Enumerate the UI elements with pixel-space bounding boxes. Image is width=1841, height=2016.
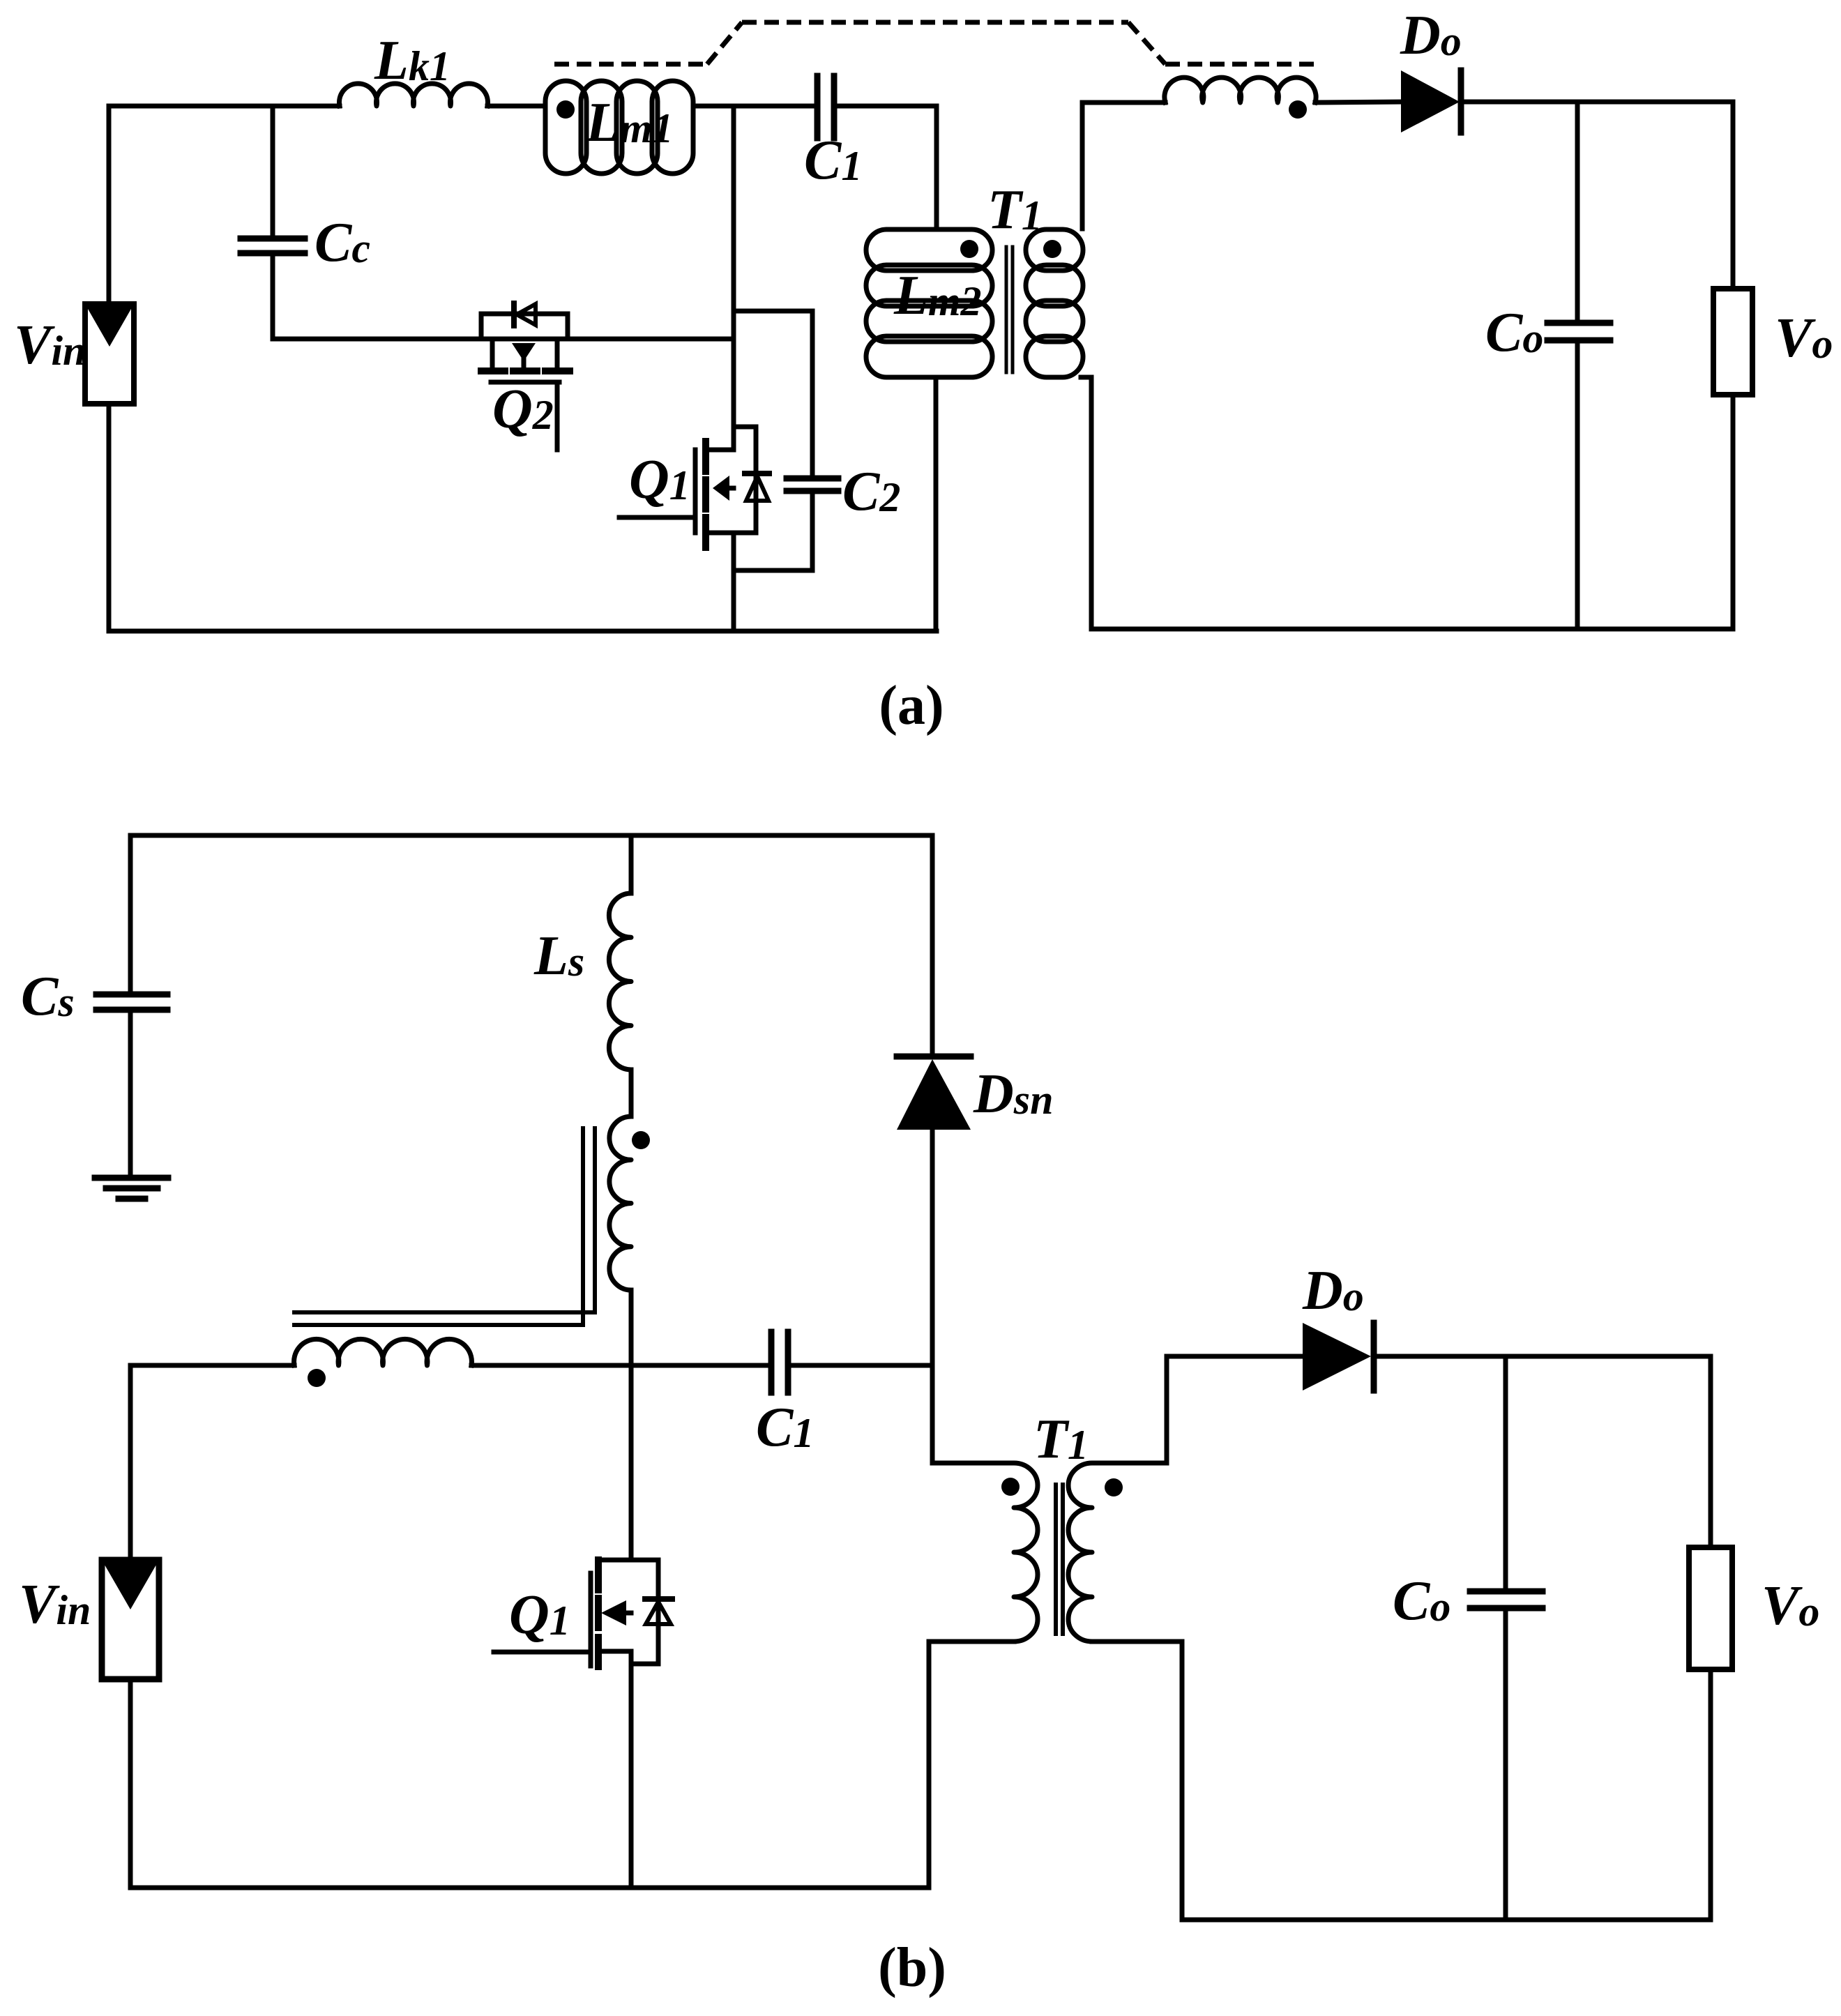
wire: Q2 source vertical bbox=[479, 314, 484, 339]
wire: Q1 gate lead (b) bbox=[494, 1650, 588, 1655]
Q2 channel stubs bbox=[490, 339, 495, 369]
wire: C2 branch top bbox=[734, 309, 812, 314]
Q1 gate bar bbox=[693, 450, 698, 533]
wire: to Vo (b) bbox=[1709, 1356, 1713, 1547]
wire: Vin to bottom rail bbox=[107, 404, 112, 631]
coupled winding (vertical, of input coupled inductor) bbox=[609, 1116, 631, 1290]
wire: Q2 drain vertical bbox=[566, 314, 570, 339]
capacitor Cs plates bbox=[96, 992, 167, 998]
Q1 source stub bbox=[709, 531, 734, 536]
diode Do (a) bbox=[1401, 70, 1460, 132]
wire: left rail to input coil bbox=[130, 1363, 294, 1368]
transformer T1 (b): secondary bbox=[1068, 1463, 1167, 1642]
Q1 body arrow (left) bbox=[601, 1600, 626, 1625]
wire: Q1 drain vertical from top rail bbox=[732, 106, 736, 450]
wire: T1 secondary bottom lead bbox=[1092, 1642, 1182, 1920]
wire: Co branch (b) bbox=[1503, 1356, 1508, 1589]
wire: Do to output corner bbox=[1461, 100, 1733, 105]
node: input coil phase dot bbox=[308, 1369, 326, 1387]
wire: T1 primary bottom lead bbox=[929, 1642, 1014, 1888]
capacitor C1 (b) plates bbox=[768, 1332, 775, 1393]
wire: left rail Vin (b) bbox=[128, 1365, 133, 1560]
coupled input inductor (horizontal winding) bbox=[294, 1339, 472, 1365]
node: T1 (b) primary dot bbox=[1001, 1478, 1020, 1496]
Q1 gate bar bbox=[589, 1573, 593, 1666]
wire: corner down to Lm2 bbox=[934, 106, 939, 229]
T1 (b) core bars bbox=[1054, 1485, 1058, 1634]
wire: Ls branch from top rail bbox=[629, 835, 634, 893]
svg-text:(b): (b) bbox=[878, 1937, 946, 1999]
capacitor Cc plates bbox=[241, 236, 305, 242]
Q1 body arrow (left) bbox=[713, 476, 729, 501]
wire: Vin left rail top bbox=[107, 106, 112, 304]
Q1 drain stub bbox=[602, 1558, 658, 1563]
wire: Cc bottom to Q2 source wire bbox=[271, 256, 275, 339]
inductor Ls bbox=[609, 893, 631, 1070]
node: vertical winding phase dot bbox=[632, 1131, 650, 1149]
Q1 drain stub bbox=[709, 448, 734, 453]
node: output coil phase dot bbox=[1289, 100, 1307, 119]
diode: Q1 body diode (b) bbox=[645, 1596, 672, 1602]
wire: T1 secondary top to output coil bbox=[1080, 103, 1085, 229]
capacitor Cc branch top wire bbox=[271, 106, 275, 236]
wire: (a) top rail left segment bbox=[109, 104, 340, 109]
capacitor Co (b) plates bbox=[1470, 1589, 1543, 1595]
wire: Q1 gate lead bbox=[619, 515, 693, 520]
transformer T1 (a): winding Lm2 bbox=[866, 229, 992, 271]
coupled output inductor (a) bbox=[1165, 77, 1316, 103]
source Vin (a) bbox=[85, 304, 134, 404]
wire: Do to output corner (b) bbox=[1374, 1354, 1711, 1359]
node: T1 (b) secondary dot bbox=[1105, 1478, 1123, 1496]
coupled inductor Lm1 (winding loops) bbox=[545, 81, 586, 174]
node: Lm1 phase dot bbox=[556, 100, 575, 119]
wire: Q1 body diode bracket bbox=[734, 425, 756, 430]
ground bbox=[95, 1175, 168, 1181]
capacitor C2 plates bbox=[787, 476, 838, 482]
wire: C1 to corner above Lm2 bbox=[837, 104, 937, 109]
Q2 channel segments bbox=[481, 367, 505, 374]
diode Dsn (points up) bbox=[897, 1054, 971, 1060]
diode: Q2 body diode (points left) bbox=[511, 303, 517, 326]
wire: junction down to T1 primary bbox=[930, 1365, 935, 1463]
wire: Q1 body diode bracket (b) bbox=[656, 1560, 661, 1664]
wire: to Vo bbox=[1731, 102, 1736, 289]
core of coupled inductor (L-shaped double line) bbox=[294, 1128, 595, 1312]
wire: winding down through junction to Q1 drain bbox=[629, 1290, 634, 1560]
wire: Ls to coupled winding bbox=[629, 1070, 634, 1116]
load Vo (a) bbox=[1713, 289, 1752, 395]
capacitor Co (a) plates bbox=[1547, 320, 1610, 326]
coupling dashed line (a) bbox=[554, 22, 1315, 64]
wire: Cs branch bbox=[128, 835, 133, 992]
diode Do (b) bbox=[1303, 1323, 1371, 1390]
wire: Co branch (a) bbox=[1575, 102, 1580, 320]
node: T1 (a) secondary phase dot bbox=[1043, 240, 1061, 258]
wire: (b) left bottom rail bbox=[130, 1886, 929, 1890]
wire: (a) right bottom rail bbox=[1091, 627, 1733, 632]
Q2 body arrow (down) bbox=[512, 343, 536, 361]
Q1 channel segments bbox=[595, 1560, 602, 1590]
diode: Q1 body diode (points up) bbox=[745, 471, 769, 476]
svg-text:(a): (a) bbox=[879, 675, 944, 736]
Q1 body stub bbox=[626, 1611, 631, 1616]
wire: Lm2 bottom to rail bbox=[934, 377, 939, 631]
wire: (b) right bottom rail bbox=[1182, 1918, 1711, 1923]
wire: Q1 source to bottom rail bbox=[732, 533, 736, 631]
wire: C2 bottom bbox=[810, 494, 815, 570]
Q2 gate bar bbox=[491, 380, 559, 385]
Q1 channel segments bbox=[702, 441, 709, 471]
Q1 source stub bbox=[602, 1649, 631, 1654]
wire: Q2 diode bridge bbox=[481, 312, 568, 317]
Q1 body stub bbox=[729, 486, 734, 491]
node: Lm2 phase dot bbox=[960, 240, 978, 258]
inductor Lk1 bbox=[340, 84, 488, 106]
wire: T1 secondary bottom step bbox=[1081, 375, 1091, 380]
wire: (a) bottom rail bbox=[109, 629, 937, 634]
source Vin (b) bbox=[102, 1560, 159, 1679]
wire: Q2 gate lead bbox=[555, 385, 560, 450]
wire: coil to Do bbox=[1315, 102, 1401, 103]
capacitor C1 (a) plates bbox=[815, 76, 821, 138]
transformer T1 (b): primary bbox=[932, 1463, 1038, 1642]
wire: Dsn branch bbox=[930, 835, 935, 1056]
wire: C1 to Dsn junction bbox=[791, 1363, 932, 1368]
wire: Lk1 to Lm1 bbox=[487, 104, 545, 109]
load Vo (b) bbox=[1689, 1547, 1732, 1669]
T1 (a) core bars bbox=[1005, 247, 1008, 372]
wire: Q1 source to bottom rail (b) bbox=[629, 1651, 634, 1888]
wire: T1 secondary top to Do bbox=[1165, 1356, 1169, 1463]
wire: Lm1 to C1 bbox=[695, 104, 815, 109]
wire: coil to C1 (b) bbox=[471, 1363, 766, 1368]
wire: (b) top rail bbox=[130, 833, 932, 838]
transformer T1 (a): secondary winding bbox=[1026, 229, 1083, 271]
